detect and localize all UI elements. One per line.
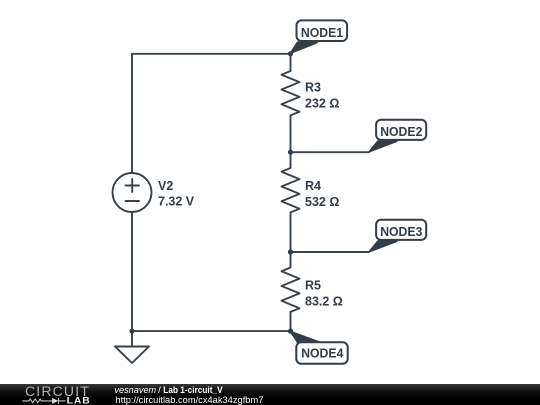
- node B junction NODE2: [288, 150, 293, 155]
- label V2 value: [158, 179, 195, 209]
- wire bottom horizontal: [132, 330, 291, 332]
- wire left rail lower: [131, 212, 133, 331]
- node NODE1 callout: [291, 20, 347, 52]
- label R5 value: [305, 278, 343, 308]
- footer bar: [0, 384, 540, 405]
- svg-text:V2: V2: [158, 179, 173, 193]
- svg-text:NODE4: NODE4: [301, 346, 344, 361]
- footer attribution line 1: [114, 385, 223, 396]
- svg-text:R5: R5: [305, 278, 321, 292]
- wire node2 horizontal: [291, 151, 370, 153]
- logo resistor-diode glyph: [22, 398, 65, 404]
- resistor R4: [282, 152, 300, 252]
- node NODE4 callout: [291, 332, 348, 364]
- svg-text:LAB: LAB: [67, 396, 91, 405]
- node D junction NODE4: [288, 329, 293, 334]
- svg-text:R3: R3: [305, 80, 321, 94]
- svg-text:NODE3: NODE3: [380, 224, 422, 239]
- resistor R3: [282, 54, 300, 152]
- voltage source V2: [113, 173, 152, 212]
- svg-text:NODE2: NODE2: [380, 124, 422, 139]
- node A junction NODE1: [288, 51, 293, 56]
- wire node3 horizontal: [291, 251, 370, 253]
- label R4 value: [305, 179, 339, 209]
- svg-text:83.2 Ω: 83.2 Ω: [305, 294, 343, 308]
- svg-text:7.32 V: 7.32 V: [158, 195, 195, 209]
- node NODE3 callout: [370, 220, 426, 252]
- resistor R5: [282, 252, 300, 331]
- svg-text:532 Ω: 532 Ω: [305, 195, 339, 209]
- wire top horizontal: [132, 53, 291, 55]
- svg-text:NODE1: NODE1: [301, 25, 343, 40]
- label R3 value: [305, 80, 339, 110]
- svg-text:232 Ω: 232 Ω: [305, 96, 339, 110]
- node E junction ground: [129, 329, 134, 334]
- svg-text:R4: R4: [305, 179, 321, 193]
- svg-text:http://circuitlab.com/cx4ak34z: http://circuitlab.com/cx4ak34zgfbm7: [115, 395, 263, 405]
- node NODE2 callout: [370, 120, 426, 152]
- wire left rail upper: [131, 54, 133, 173]
- logo diode triangle: [52, 398, 58, 404]
- node C junction NODE3: [288, 249, 293, 254]
- ground: [115, 331, 149, 363]
